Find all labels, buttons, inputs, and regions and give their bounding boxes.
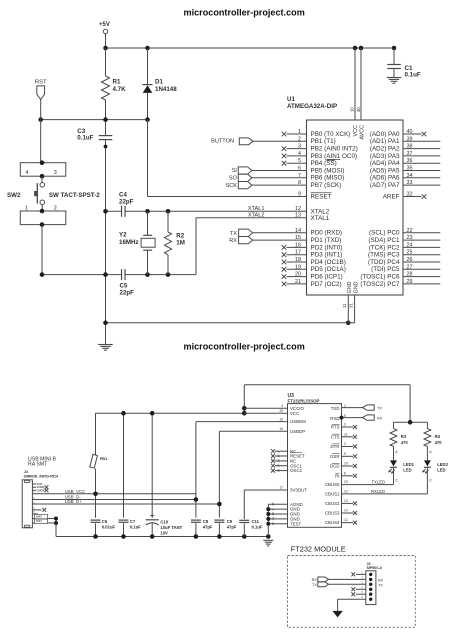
- svg-text:RESET: RESET: [311, 193, 332, 200]
- svg-text:0.1uF: 0.1uF: [252, 525, 263, 530]
- svg-text:470: 470: [435, 440, 443, 445]
- svg-text:ATMEGA32A-DIP: ATMEGA32A-DIP: [287, 103, 337, 110]
- svg-text:1: 1: [25, 205, 28, 211]
- svg-text:C: C: [429, 479, 432, 483]
- svg-text:17: 17: [279, 485, 283, 489]
- svg-text:RST: RST: [35, 80, 47, 86]
- svg-text:SO: SO: [229, 176, 238, 182]
- svg-text:CBUS1: CBUS1: [325, 492, 340, 497]
- svg-text:12: 12: [344, 518, 348, 522]
- svg-text:3V3OUT: 3V3OUT: [290, 488, 307, 493]
- svg-text:TX: TX: [377, 406, 382, 410]
- svg-text:11: 11: [342, 303, 347, 308]
- svg-text:(TOSC2) PC7: (TOSC2) PC7: [360, 281, 400, 288]
- svg-text:11: 11: [344, 432, 348, 436]
- svg-text:SW TACT-SPST-2: SW TACT-SPST-2: [49, 192, 100, 199]
- svg-text:28: 28: [277, 468, 281, 472]
- svg-text:1547K: 1547K: [37, 488, 45, 492]
- svg-text:PD3 (INT1): PD3 (INT1): [311, 252, 343, 259]
- svg-text:20: 20: [279, 409, 283, 413]
- svg-text:GND: GND: [347, 281, 353, 293]
- svg-text:(TDO) PC4: (TDO) PC4: [368, 259, 400, 266]
- svg-text:PD5 (OC1A): PD5 (OC1A): [311, 266, 346, 273]
- svg-text:PB7 (SCK): PB7 (SCK): [311, 182, 342, 189]
- svg-text:2: 2: [344, 442, 346, 446]
- svg-text:PB0 (T0 XCK): PB0 (T0 XCK): [311, 131, 351, 138]
- svg-text:18: 18: [271, 512, 275, 516]
- svg-text:TX: TX: [378, 583, 383, 587]
- svg-text:4.7K: 4.7K: [113, 86, 127, 93]
- svg-text:PD0 (RXD): PD0 (RXD): [311, 230, 343, 237]
- svg-text:VCC: VCC: [353, 125, 359, 136]
- svg-text:XTAL2: XTAL2: [248, 212, 265, 218]
- svg-text:2: 2: [54, 205, 57, 211]
- svg-text:USB_D+: USB_D+: [65, 499, 82, 504]
- svg-text:CBUS2: CBUS2: [325, 501, 340, 506]
- svg-text:10V: 10V: [160, 530, 168, 535]
- svg-text:XTAL1: XTAL1: [248, 206, 265, 212]
- svg-text:12: 12: [295, 206, 301, 212]
- svg-text:GND: GND: [353, 281, 359, 293]
- svg-text:(TCK) PC2: (TCK) PC2: [369, 244, 400, 251]
- svg-text:DCD: DCD: [330, 464, 340, 469]
- svg-text:J4: J4: [24, 470, 28, 474]
- svg-text:47pF: 47pF: [227, 525, 237, 530]
- svg-text:DTR: DTR: [330, 444, 339, 449]
- svg-text:FT232RL/SSOP: FT232RL/SSOP: [288, 399, 320, 404]
- svg-text:SCK: SCK: [225, 183, 237, 189]
- svg-text:R3: R3: [401, 434, 407, 439]
- svg-text:LED2: LED2: [437, 462, 448, 467]
- svg-text:27: 27: [277, 464, 281, 468]
- svg-text:microcontroller-project.com: microcontroller-project.com: [184, 342, 305, 352]
- svg-text:C7: C7: [130, 519, 136, 524]
- svg-text:RA SMT: RA SMT: [28, 462, 48, 468]
- svg-text:25: 25: [271, 502, 275, 506]
- svg-text:RI: RI: [335, 473, 339, 478]
- svg-text:31: 31: [348, 303, 353, 308]
- svg-text:4: 4: [281, 404, 283, 408]
- svg-text:USBDM: USBDM: [290, 419, 306, 424]
- svg-text:PD6 (ICP1): PD6 (ICP1): [311, 274, 343, 281]
- svg-text:PD1 (TXD): PD1 (TXD): [311, 237, 342, 244]
- svg-text:(SCL) PC0: (SCL) PC0: [369, 230, 400, 237]
- svg-text:3: 3: [54, 170, 57, 176]
- svg-text:9: 9: [298, 192, 301, 198]
- svg-text:OSC2: OSC2: [290, 468, 303, 473]
- svg-text:+5V: +5V: [99, 22, 110, 28]
- svg-text:1544: 1544: [36, 519, 42, 523]
- svg-text:(AD6) PA6: (AD6) PA6: [370, 175, 400, 182]
- svg-text:RX: RX: [312, 578, 318, 582]
- svg-text:(TOSC1) PC6: (TOSC1) PC6: [360, 274, 400, 281]
- svg-text:BUTTON: BUTTON: [211, 139, 234, 145]
- svg-text:PB2 (AIN0 INT2): PB2 (AIN0 INT2): [311, 146, 358, 153]
- svg-text:CTS: CTS: [331, 434, 340, 439]
- svg-text:RX: RX: [378, 578, 384, 582]
- svg-text:(TMS) PC3: (TMS) PC3: [368, 252, 400, 259]
- svg-text:47pF: 47pF: [203, 525, 213, 530]
- svg-text:LED: LED: [437, 467, 445, 472]
- svg-text:10uF TANT: 10uF TANT: [160, 525, 182, 530]
- svg-text:FT232 MODULE: FT232 MODULE: [291, 544, 346, 553]
- svg-text:16MHz: 16MHz: [119, 239, 139, 246]
- svg-text:PD7 (OC2): PD7 (OC2): [311, 281, 342, 288]
- svg-text:PB6 (MISO): PB6 (MISO): [311, 175, 345, 182]
- svg-text:USBDP: USBDP: [290, 429, 305, 434]
- svg-text:24: 24: [277, 459, 281, 463]
- svg-text:SIP50C-6: SIP50C-6: [367, 566, 383, 570]
- svg-text:19: 19: [277, 454, 281, 458]
- svg-text:1543: 1543: [36, 515, 42, 519]
- svg-text:TEST: TEST: [290, 521, 302, 526]
- svg-text:14: 14: [344, 509, 348, 513]
- svg-text:0.1uF: 0.1uF: [405, 72, 421, 79]
- svg-text:Y2: Y2: [119, 231, 127, 238]
- svg-text:(AD5) PA5: (AD5) PA5: [370, 167, 400, 174]
- svg-text:RX: RX: [229, 238, 237, 244]
- svg-text:RXD: RXD: [330, 416, 339, 421]
- svg-text:13: 13: [295, 213, 301, 219]
- svg-text:TX: TX: [230, 231, 237, 237]
- svg-text:0.1uF: 0.1uF: [77, 134, 93, 141]
- svg-text:U1: U1: [287, 96, 295, 103]
- svg-text:21: 21: [271, 517, 275, 521]
- svg-text:C9: C9: [227, 519, 233, 524]
- svg-text:26: 26: [271, 522, 275, 526]
- svg-text:CBUS4: CBUS4: [325, 520, 340, 525]
- svg-text:0.01uF: 0.01uF: [102, 525, 116, 530]
- svg-text:15: 15: [279, 427, 283, 431]
- svg-text:TXLED: TXLED: [372, 480, 386, 485]
- svg-text:6: 6: [344, 471, 346, 475]
- svg-text:3: 3: [344, 423, 346, 427]
- svg-text:C8: C8: [203, 519, 209, 524]
- svg-text:RTS: RTS: [331, 425, 340, 430]
- svg-text:C: C: [395, 479, 398, 483]
- svg-text:(AD0) PA0: (AD0) PA0: [370, 131, 400, 138]
- svg-text:(AD1) PA1: (AD1) PA1: [370, 138, 400, 145]
- svg-text:(SDA) PC1: (SDA) PC1: [368, 237, 400, 244]
- svg-text:(AD4) PA4: (AD4) PA4: [370, 160, 400, 167]
- svg-text:R4: R4: [435, 434, 441, 439]
- svg-text:9: 9: [344, 452, 346, 456]
- svg-text:PD2 (INT0): PD2 (INT0): [311, 244, 343, 251]
- svg-text:RXLED: RXLED: [371, 489, 385, 494]
- svg-text:DSR: DSR: [330, 454, 339, 459]
- svg-text:LED1: LED1: [403, 462, 414, 467]
- svg-text:10: 10: [350, 107, 355, 112]
- svg-text:R2: R2: [176, 233, 184, 240]
- svg-text:C10: C10: [160, 519, 168, 524]
- svg-text:PB5 (MOSI): PB5 (MOSI): [311, 167, 345, 174]
- svg-text:470: 470: [401, 440, 409, 445]
- svg-text:XTAL1: XTAL1: [311, 215, 330, 222]
- svg-text:(AD2) PA2: (AD2) PA2: [370, 146, 400, 153]
- svg-text:FB1: FB1: [100, 456, 108, 461]
- svg-text:SI: SI: [232, 168, 238, 174]
- svg-text:D1: D1: [155, 78, 163, 85]
- svg-text:30: 30: [356, 107, 361, 112]
- svg-text:13: 13: [344, 499, 348, 503]
- svg-text:AREF: AREF: [383, 193, 400, 200]
- svg-text:RX: RX: [377, 416, 383, 420]
- svg-text:(AD3) PA3: (AD3) PA3: [370, 153, 400, 160]
- svg-text:1N4148: 1N4148: [155, 86, 177, 93]
- svg-text:TX: TX: [312, 583, 317, 587]
- svg-text:(TDI) PC5: (TDI) PC5: [371, 266, 400, 273]
- svg-text:LED: LED: [403, 467, 411, 472]
- svg-text:22pF: 22pF: [119, 199, 134, 206]
- svg-text:23: 23: [344, 480, 348, 484]
- svg-text:C11: C11: [252, 519, 260, 524]
- svg-text:PB4 (SS): PB4 (SS): [311, 160, 337, 167]
- svg-text:microcontroller-project.com: microcontroller-project.com: [184, 8, 305, 18]
- svg-text:(AD7) PA7: (AD7) PA7: [370, 182, 400, 189]
- svg-text:10: 10: [344, 462, 348, 466]
- svg-text:AVCC: AVCC: [360, 125, 366, 140]
- svg-text:R1: R1: [113, 79, 121, 86]
- svg-text:OMRON_XM7D-0514: OMRON_XM7D-0514: [24, 475, 58, 479]
- svg-text:22pF: 22pF: [120, 289, 135, 296]
- svg-text:16: 16: [279, 417, 283, 421]
- svg-text:CBUS3: CBUS3: [325, 511, 340, 516]
- svg-text:VCC: VCC: [290, 411, 299, 416]
- svg-text:PB3 (AIN1 OC0): PB3 (AIN1 OC0): [311, 153, 358, 160]
- svg-text:SW2: SW2: [7, 192, 21, 199]
- svg-text:TXD: TXD: [331, 406, 340, 411]
- svg-text:4: 4: [26, 170, 29, 176]
- svg-text:USB_VCC: USB_VCC: [65, 489, 85, 494]
- svg-text:0.1uF: 0.1uF: [130, 525, 141, 530]
- svg-text:1M: 1M: [176, 240, 185, 247]
- svg-text:PD4 (OC1B): PD4 (OC1B): [311, 259, 346, 266]
- svg-text:PB1 (T1): PB1 (T1): [311, 138, 336, 145]
- svg-text:C6: C6: [102, 519, 108, 524]
- svg-text:CBUS0: CBUS0: [325, 482, 340, 487]
- svg-text:C4: C4: [119, 192, 127, 199]
- svg-text:22: 22: [344, 490, 348, 494]
